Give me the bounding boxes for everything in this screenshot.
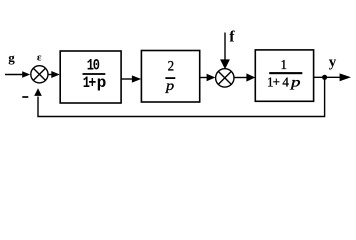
svg-text:y: y — [329, 55, 337, 71]
arrowhead into S2 top — [220, 59, 230, 69]
svg-text:ε: ε — [37, 52, 42, 64]
svg-text:+: + — [273, 74, 280, 89]
summing junction S1 — [31, 66, 48, 83]
wire g input — [5, 74, 24, 76]
wire B2 to summer S2 — [200, 77, 209, 79]
wire S1 to block B1 — [48, 74, 53, 76]
svg-text:4: 4 — [282, 74, 289, 89]
arrowhead feedback into S1 bottom — [34, 88, 42, 96]
B1 fraction bar — [83, 73, 106, 75]
svg-text:2: 2 — [168, 58, 175, 74]
svg-text:p: p — [97, 74, 107, 92]
arrowhead into B1 — [51, 71, 60, 78]
arrowhead into S2 left — [207, 74, 216, 81]
B3 fraction bar — [269, 72, 302, 74]
svg-text:f: f — [229, 28, 235, 45]
block B2 2/p — [141, 51, 199, 103]
svg-text:1: 1 — [281, 57, 288, 72]
B1 denominator 1+p — [83, 74, 107, 92]
svg-text:p: p — [290, 74, 301, 90]
svg-text:0: 0 — [93, 57, 100, 75]
arrowhead output — [340, 73, 351, 81]
wire f input vertical — [224, 33, 226, 62]
B1 numerator 10 — [87, 57, 100, 75]
block B1 10/(1+p) — [60, 51, 121, 103]
svg-text:+: + — [88, 75, 96, 92]
arrowhead into summer S1 — [22, 71, 30, 77]
wire S2 to block B3 — [234, 77, 249, 79]
svg-text:p: p — [165, 78, 175, 94]
minus sign for feedback — [22, 96, 28, 98]
svg-text:g: g — [8, 50, 15, 65]
arrowhead into B2 — [132, 75, 141, 82]
block B3 1/(1+4p) — [255, 50, 313, 101]
B3 denominator 1+4p — [267, 74, 300, 90]
summing junction S2 — [216, 69, 234, 87]
wire output from B3 — [314, 76, 343, 78]
arrowhead into B3 — [246, 73, 255, 81]
junction dot on output — [322, 75, 327, 80]
wire feedback: down, across bottom, up to S1 — [38, 77, 325, 116]
B2 fraction bar — [165, 77, 175, 79]
wire B1 to B2 — [121, 78, 135, 80]
